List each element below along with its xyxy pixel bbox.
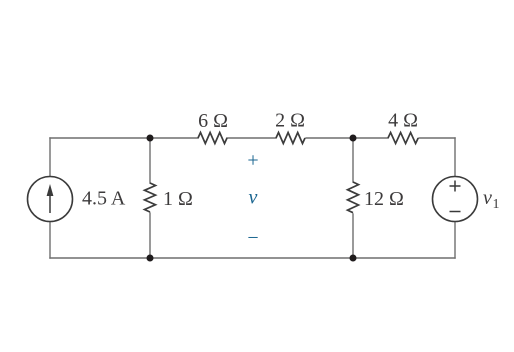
wire top between 2ohm and node B (306, 137, 388, 139)
svg-text:1 Ω: 1 Ω (163, 188, 193, 210)
current source arrow (49, 193, 51, 213)
svg-text:v: v (483, 187, 492, 209)
resistor R 1ohm (145, 183, 156, 212)
resistor R 6ohm (198, 133, 227, 144)
svg-text:+: + (247, 150, 258, 172)
wire right above source (454, 138, 456, 177)
wire top between 6ohm and 2ohm (227, 137, 276, 139)
wire 12ohm to bottom (352, 214, 354, 258)
svg-text:12 Ω: 12 Ω (364, 188, 404, 210)
node B bottom (350, 255, 357, 262)
current source 4.5A circle (28, 177, 73, 222)
wire right below source (454, 221, 456, 258)
svg-text:6 Ω: 6 Ω (198, 110, 228, 132)
voltage source plus (450, 181, 461, 192)
wire left above source (49, 138, 51, 177)
voltage source v1 circle (433, 177, 478, 222)
resistor R 12ohm (348, 182, 359, 213)
wire top-left segment (50, 137, 198, 139)
wire top between 4ohm and right (419, 137, 455, 139)
svg-text:−: − (247, 227, 258, 249)
svg-text:1: 1 (493, 197, 500, 212)
wire bottom (50, 257, 455, 259)
svg-text:2 Ω: 2 Ω (275, 110, 305, 132)
wire left below source (49, 221, 51, 258)
wire node A to 1ohm (149, 138, 151, 183)
resistor R 2ohm (276, 133, 305, 144)
node A top (147, 135, 154, 142)
wire node B to 12ohm (352, 138, 354, 182)
node A bottom (147, 255, 154, 262)
voltage source minus (450, 211, 461, 213)
wire 1ohm to bottom (149, 213, 151, 258)
svg-text:4 Ω: 4 Ω (388, 110, 418, 132)
resistor R 4ohm (388, 133, 418, 144)
svg-text:v: v (249, 187, 258, 209)
svg-text:4.5 A: 4.5 A (82, 188, 126, 210)
node B top (350, 135, 357, 142)
